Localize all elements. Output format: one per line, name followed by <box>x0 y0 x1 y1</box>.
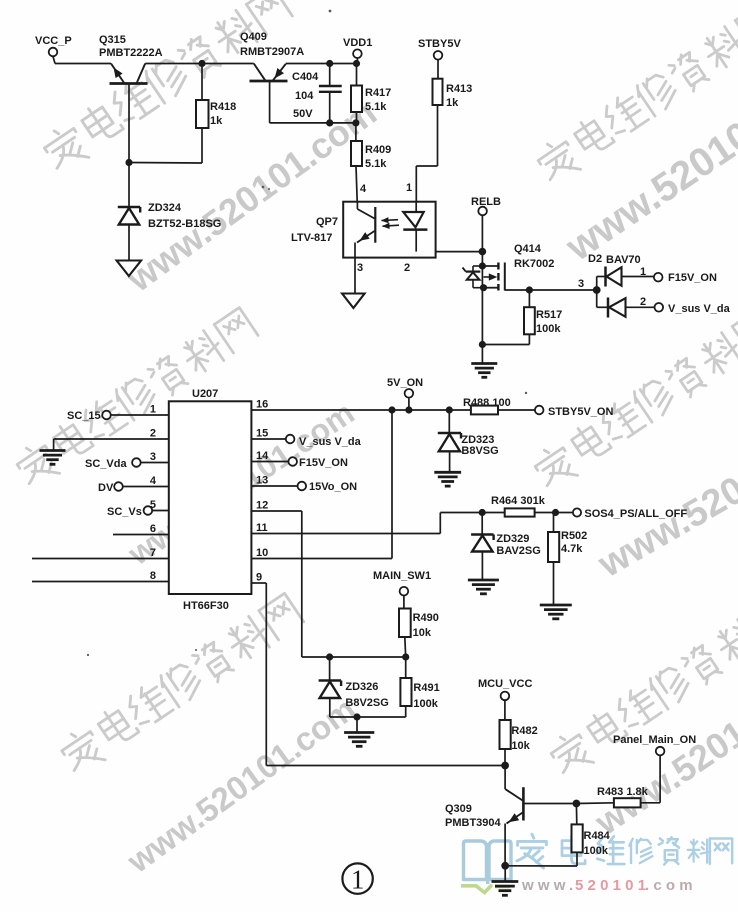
svg-text:14: 14 <box>256 450 269 462</box>
node base/ZD324 junction <box>125 159 132 166</box>
terminal Panel_Main_ON <box>613 734 696 755</box>
node C404 top <box>326 60 333 67</box>
pin 5 wire / terminal SC_Vs <box>107 506 169 518</box>
wire ZD324 to ground <box>128 225 130 261</box>
terminal STBY5V_ON <box>535 406 614 418</box>
resistor R482 10k <box>500 700 538 765</box>
wire R484 bottom to emitter <box>505 865 577 867</box>
svg-text:HT66F30: HT66F30 <box>183 600 229 612</box>
wire Q309 base to R484/R483 node <box>523 803 576 805</box>
node ZD326 top <box>326 653 333 660</box>
svg-text:R483 1.8k: R483 1.8k <box>597 786 649 798</box>
pin 8 wire <box>32 581 169 583</box>
svg-text:ZD329: ZD329 <box>496 533 529 545</box>
svg-text:1: 1 <box>406 182 412 194</box>
svg-text:5V_ON: 5V_ON <box>387 377 423 389</box>
logo text (blue) <box>517 834 732 868</box>
resistor R488 100 <box>463 397 511 414</box>
ground (bars) below Q309 <box>492 880 519 883</box>
svg-text:1: 1 <box>150 404 156 416</box>
node R502 top <box>552 509 559 516</box>
zener ZD326 B8V2SG <box>319 657 389 709</box>
watermark row 6 (left mid band) <box>12 305 260 490</box>
ground (triangle) below QP7 <box>342 294 365 309</box>
ground (bars) below R517 <box>471 362 497 365</box>
svg-text:B8VSG: B8VSG <box>461 445 498 457</box>
wire QP7 pin2 to RELB line <box>436 251 483 253</box>
svg-text:2: 2 <box>640 296 646 308</box>
svg-text:Q315: Q315 <box>99 34 126 46</box>
terminal VCC_P <box>35 35 72 56</box>
svg-text:104: 104 <box>295 90 314 102</box>
scan specks <box>87 10 527 657</box>
svg-text:1: 1 <box>640 266 646 278</box>
wire Q409 base down to bottom rail <box>270 81 356 123</box>
pin 4 wire / terminal DV <box>98 482 169 494</box>
svg-text:10: 10 <box>256 547 268 559</box>
logo book icon <box>464 841 512 884</box>
node Q315 collector / R418 / Q409 <box>198 60 205 67</box>
svg-text:RMBT2907A: RMBT2907A <box>240 46 304 58</box>
svg-text:BAV70: BAV70 <box>606 254 641 266</box>
svg-text:PMBT2222A: PMBT2222A <box>99 47 163 59</box>
wire up to Panel_Main_ON <box>659 756 661 803</box>
resistor R484 100k <box>572 804 611 867</box>
pin 2 wire to ground <box>54 439 169 451</box>
zener ZD323 B8VSG <box>438 410 499 457</box>
svg-text:3: 3 <box>357 262 363 274</box>
svg-text:2: 2 <box>150 428 156 440</box>
wire R491/ZD326 bottoms joined <box>330 716 406 718</box>
node ground junction ZD326 row <box>353 713 360 720</box>
svg-text:1k: 1k <box>446 97 459 109</box>
IC U207 HT66F30 <box>169 388 252 612</box>
svg-text:R502: R502 <box>561 530 587 542</box>
svg-text:3: 3 <box>150 451 156 463</box>
wire R413 to QP7 pin1 <box>416 105 437 202</box>
wire node to ground <box>481 345 483 364</box>
pin 15 wire / terminal V_sus V_da <box>251 435 361 448</box>
mosfet Q414 RK7002 <box>463 243 555 291</box>
svg-text:BZT52-B18SG: BZT52-B18SG <box>148 218 221 230</box>
svg-text:R491: R491 <box>413 682 439 694</box>
svg-text:15: 15 <box>256 428 268 440</box>
svg-text:6: 6 <box>150 523 156 535</box>
wire 5V_ON vertical to pin 10 <box>391 410 393 559</box>
svg-text:BAV2SG: BAV2SG <box>496 545 540 557</box>
terminal SOS4_PS/ALL_OFF <box>573 508 687 520</box>
wire node to ZD324 <box>128 163 130 208</box>
svg-text:SC_Vda: SC_Vda <box>85 458 127 470</box>
resistor R413 1k <box>433 60 473 109</box>
svg-text:100k: 100k <box>536 323 561 335</box>
pin 9 wire down and right <box>251 583 505 766</box>
svg-text:LTV-817: LTV-817 <box>291 232 332 244</box>
resistor R491 100k <box>400 657 439 717</box>
svg-text:SC_15: SC_15 <box>67 410 101 422</box>
resistor R517 100k <box>524 290 562 345</box>
resistor R417 5.1k <box>351 64 391 123</box>
svg-text:11: 11 <box>256 522 268 534</box>
svg-text:R418: R418 <box>210 101 236 113</box>
svg-text:F15V_ON: F15V_ON <box>668 272 717 284</box>
terminal VDD1 <box>343 37 372 64</box>
node ZD329 top <box>479 509 486 516</box>
resistor R483 1.8k <box>576 786 660 807</box>
svg-text:8: 8 <box>150 570 156 582</box>
svg-text:15Vo_ON: 15Vo_ON <box>309 481 357 493</box>
resistor R490 10k <box>399 596 439 657</box>
watermark row 5 (bottom right) <box>546 594 738 779</box>
node ZD323 top <box>446 406 453 413</box>
svg-text:10k: 10k <box>511 740 530 752</box>
node Q309 collector <box>501 762 509 770</box>
svg-text:50V: 50V <box>293 108 313 120</box>
svg-text:Q409: Q409 <box>240 31 267 43</box>
wire R502 to ground <box>553 562 555 605</box>
svg-text:B8V2SG: B8V2SG <box>345 697 388 709</box>
resistor R464 <box>482 508 555 516</box>
svg-text:4: 4 <box>150 475 157 487</box>
svg-text:100k: 100k <box>413 698 438 710</box>
pin 11 wire to R464 row <box>251 513 482 534</box>
wire emitter to ground <box>504 866 506 882</box>
terminal MAIN_SW1 <box>373 570 431 596</box>
wire Q315 base down <box>128 84 130 163</box>
svg-text:100k: 100k <box>584 845 609 857</box>
wire ZD326 bottom <box>329 698 331 717</box>
zener ZD329 BAV2SG <box>471 513 541 558</box>
svg-text:R517: R517 <box>536 309 562 321</box>
svg-text:1k: 1k <box>210 115 223 127</box>
svg-text:.com: .com <box>645 877 697 894</box>
svg-text:R409: R409 <box>365 144 391 156</box>
wire to SOS4 terminal <box>556 512 573 514</box>
svg-text:RELB: RELB <box>471 196 501 208</box>
svg-text:1: 1 <box>351 865 365 895</box>
svg-text:STBY5V: STBY5V <box>418 38 461 50</box>
watermark row 3 (mid left) <box>56 591 305 777</box>
node D2 common cathode <box>593 286 601 294</box>
transistor Q315 PMBT2222A <box>99 34 163 84</box>
resistor R418 1k <box>196 64 236 164</box>
transistor Q409 RMBT2907A <box>202 31 304 81</box>
watermark row 2 (top right) <box>533 1 738 186</box>
wire RELB down <box>481 215 483 344</box>
node base/R483/R484 <box>573 800 581 808</box>
watermark row 1 <box>39 0 295 176</box>
terminal 5V_ON <box>387 377 423 410</box>
svg-text:R484: R484 <box>584 830 611 842</box>
svg-text:www.: www. <box>521 877 577 894</box>
pin 6 wire <box>113 534 169 536</box>
ground (bars) below R502 <box>540 604 572 607</box>
svg-text:R464 301k: R464 301k <box>491 495 546 507</box>
svg-text:R413: R413 <box>446 83 472 95</box>
node MOSFET source <box>480 284 487 291</box>
pin 1 wire / terminal SC_15 <box>67 410 169 422</box>
svg-text:520101: 520101 <box>575 877 650 894</box>
wire VCC_P to Q315 emitter <box>53 57 111 64</box>
svg-text:5.1k: 5.1k <box>365 101 387 113</box>
svg-text:4: 4 <box>360 183 367 195</box>
optocoupler QP7 LTV-817 <box>291 202 436 258</box>
svg-text:R490: R490 <box>413 612 439 624</box>
terminal RELB <box>471 196 501 215</box>
svg-text:4.7k: 4.7k <box>561 543 583 555</box>
svg-text:U207: U207 <box>192 388 218 400</box>
svg-text:Q309: Q309 <box>445 803 472 815</box>
svg-text:5.1k: 5.1k <box>365 158 387 170</box>
svg-text:F15V_ON: F15V_ON <box>299 457 348 469</box>
wire gate node to D2 <box>529 289 596 291</box>
svg-text:R417: R417 <box>365 87 391 99</box>
node RELB / QP7 pin2 <box>479 248 487 256</box>
node 5V_ON drop <box>405 406 412 413</box>
logo green swoosh <box>461 885 510 893</box>
svg-text:ZD324: ZD324 <box>148 202 182 214</box>
wire Q315 collector to node <box>145 63 202 65</box>
pin 12 wire down to ZD326 row <box>251 511 405 657</box>
svg-text:2: 2 <box>404 262 410 274</box>
ground (bars) pin 2 <box>40 449 66 452</box>
svg-text:9: 9 <box>256 572 262 584</box>
node R517 top <box>526 286 533 293</box>
ground (bars) ZD326 row <box>344 731 374 734</box>
node 5V_ON rail corner <box>388 406 395 413</box>
svg-text:DV: DV <box>98 482 114 494</box>
dual diode D2 BAV70 <box>588 253 655 318</box>
ground (bars) below ZD323 <box>434 471 461 474</box>
svg-text:PMBT3904: PMBT3904 <box>445 817 502 829</box>
terminal V_sus V_da <box>655 303 731 315</box>
terminal MCU_VCC <box>478 678 532 700</box>
node R417/R409 junction <box>352 119 359 126</box>
node R490/R491 junction <box>402 653 409 660</box>
terminal STBY5V <box>418 38 461 60</box>
svg-text:R482: R482 <box>511 725 537 737</box>
svg-text:VCC_P: VCC_P <box>35 35 72 47</box>
svg-text:Q414: Q414 <box>514 243 542 255</box>
pin 16 wire / 5V_ON rail <box>251 409 539 411</box>
wire to ground <box>356 717 358 733</box>
node C404 bottom <box>326 119 333 126</box>
capacitor C404 104 50V <box>292 64 342 123</box>
svg-text:12: 12 <box>256 500 268 512</box>
wire QP7 pin3 to ground <box>354 258 356 294</box>
svg-text:MCU_VCC: MCU_VCC <box>478 678 532 690</box>
circled number 1 <box>342 863 372 894</box>
resistor R502 4.7k <box>548 513 587 563</box>
logo url text <box>521 877 697 894</box>
resistor R409 5.1k <box>351 123 391 202</box>
node MOSFET drain <box>479 262 486 269</box>
svg-text:16: 16 <box>256 399 268 411</box>
pin 3 wire / terminal SC_Vda <box>85 458 169 470</box>
node ground junction <box>479 341 486 348</box>
svg-text:13: 13 <box>256 475 268 487</box>
wire R517 bottom to RELB line <box>482 344 529 346</box>
svg-text:V_sus V_da: V_sus V_da <box>668 303 731 315</box>
svg-text:V_sus V_da: V_sus V_da <box>299 436 362 448</box>
node VDD1 rail <box>353 60 360 67</box>
svg-text:7: 7 <box>150 547 156 559</box>
svg-text:10k: 10k <box>413 627 432 639</box>
svg-text:SOS4_PS/ALL_OFF: SOS4_PS/ALL_OFF <box>584 508 687 520</box>
pin 13 wire / terminal 15Vo_ON <box>251 481 357 493</box>
svg-text:VDD1: VDD1 <box>343 37 372 49</box>
pin 14 wire / terminal F15V_ON <box>251 457 348 469</box>
svg-text:SC_Vs: SC_Vs <box>107 506 142 518</box>
ground (triangle) below ZD324 <box>117 261 142 277</box>
svg-text:QP7: QP7 <box>316 216 338 228</box>
svg-text:3: 3 <box>578 278 584 290</box>
wire ZD329 to ground <box>481 552 483 581</box>
wire ZD323 to ground <box>449 451 451 472</box>
svg-text:C404: C404 <box>292 71 319 83</box>
zener ZD324 BZT52-B18SG <box>118 202 222 230</box>
svg-text:Panel_Main_ON: Panel_Main_ON <box>613 734 696 746</box>
svg-text:MAIN_SW1: MAIN_SW1 <box>373 570 431 582</box>
svg-text:ZD326: ZD326 <box>345 681 378 693</box>
wire R418 bottom to base node <box>129 162 202 165</box>
pin 10 wire <box>251 558 392 560</box>
pin 7 wire <box>32 558 169 560</box>
svg-text:D2: D2 <box>588 253 602 265</box>
svg-text:RK7002: RK7002 <box>514 258 554 270</box>
wire Q409 emitter to VDD1 rail <box>286 63 357 65</box>
ground (bars) below ZD329 <box>468 579 499 582</box>
terminal F15V_ON <box>654 272 717 284</box>
svg-text:STBY5V_ON: STBY5V_ON <box>548 406 613 418</box>
transistor Q309 PMBT3904 <box>445 766 523 866</box>
node Q309 emitter/ground <box>501 862 509 870</box>
watermark row 4 (right mid) <box>530 307 738 492</box>
